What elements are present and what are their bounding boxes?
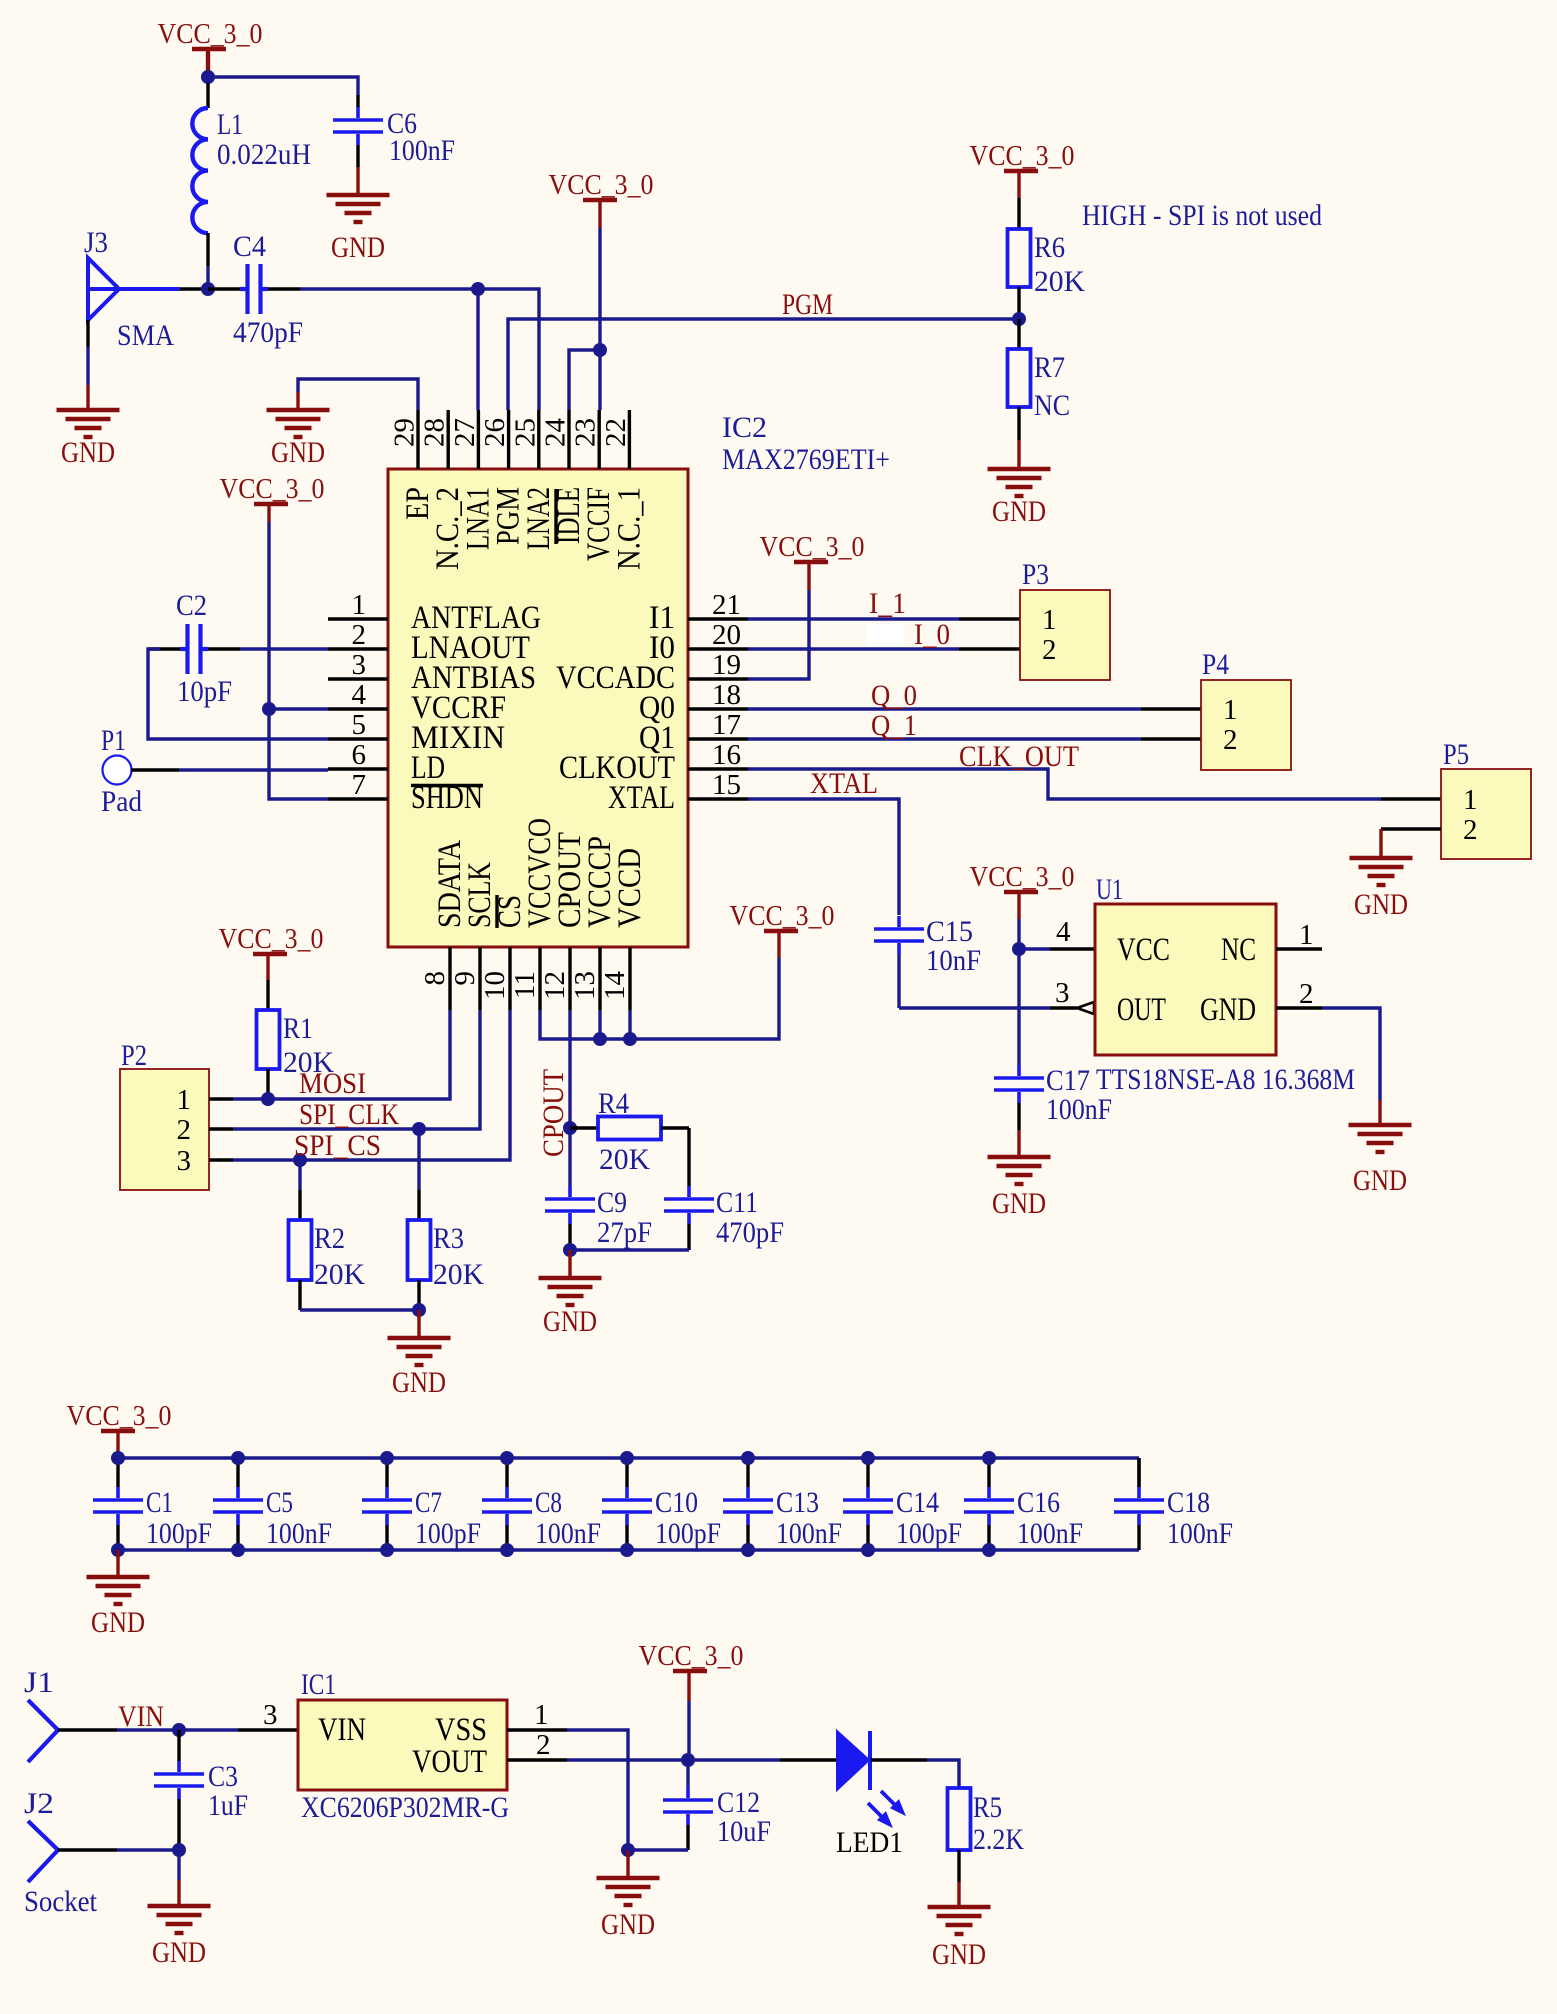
svg-text:2: 2 — [177, 1114, 192, 1146]
svg-text:VCC_3_0: VCC_3_0 — [158, 18, 263, 50]
capacitor C14 — [866, 1458, 869, 1487]
svg-text:R6: R6 — [1034, 231, 1065, 264]
svg-text:26: 26 — [479, 418, 511, 447]
svg-text:3: 3 — [1055, 977, 1070, 1009]
svg-text:1: 1 — [1042, 604, 1057, 636]
svg-text:VCC_3_0: VCC_3_0 — [549, 169, 654, 201]
node junction (VOUT/VCC/C12) — [681, 1753, 695, 1767]
svg-text:100pF: 100pF — [896, 1517, 962, 1550]
svg-text:VIN: VIN — [318, 1712, 366, 1748]
wire GND rail bottom — [118, 1548, 1139, 1551]
svg-text:18: 18 — [712, 679, 741, 711]
svg-text:N.C._1: N.C._1 — [611, 487, 647, 570]
svg-text:J3: J3 — [84, 226, 108, 259]
node junction (SPI_CS/R2) — [293, 1153, 307, 1167]
svg-text:7: 7 — [352, 769, 367, 801]
svg-text:9: 9 — [449, 971, 481, 986]
junction C13 top — [741, 1451, 755, 1465]
svg-text:23: 23 — [570, 418, 602, 447]
junction C1 bottom — [111, 1543, 125, 1557]
svg-text:SPI_CLK: SPI_CLK — [299, 1098, 399, 1131]
svg-text:8: 8 — [419, 971, 451, 986]
wire PGM from pin 26 — [508, 319, 1019, 410]
svg-text:2: 2 — [1223, 724, 1238, 756]
power VCC_3_0 (cap bank) — [101, 1429, 135, 1433]
wire SPI_CLK: P2 pin2 to SCLK — [209, 1127, 233, 1130]
node junction (J2/C3 gnd) — [172, 1843, 186, 1857]
IC1 pin 1 VSS wire — [507, 1728, 567, 1731]
svg-text:2: 2 — [1463, 814, 1478, 846]
wire J1 VIN — [58, 1728, 117, 1731]
svg-text:C4: C4 — [233, 230, 266, 263]
wire IDLE to VCC — [569, 350, 600, 410]
wire C15 to U1 OUT — [897, 954, 900, 1008]
wire I_0 to P3 pin2 — [748, 647, 959, 650]
wire R2/R3 to ground — [300, 1308, 419, 1311]
svg-text:SPI_CS: SPI_CS — [294, 1129, 381, 1162]
svg-text:C18: C18 — [1167, 1486, 1210, 1519]
junction C16 top — [982, 1451, 996, 1465]
svg-text:GND: GND — [932, 1938, 986, 1971]
power VCC_3_0 (VCCADC) — [794, 560, 828, 564]
svg-text:P4: P4 — [1202, 648, 1229, 681]
svg-text:470pF: 470pF — [716, 1216, 784, 1249]
svg-text:CLK_OUT: CLK_OUT — [959, 740, 1079, 773]
wire VCC to C6 — [208, 77, 358, 95]
LED1 arrows — [868, 1791, 895, 1817]
resistor R7 — [1017, 319, 1020, 349]
svg-text:100pF: 100pF — [146, 1517, 212, 1550]
svg-text:20K: 20K — [1034, 265, 1085, 298]
node junction (VCCCP) — [593, 1032, 607, 1046]
capacitor C18 — [1137, 1458, 1140, 1487]
wire VCC to U1 pin 4 — [1019, 947, 1050, 950]
svg-text:GND: GND — [543, 1305, 597, 1338]
wire to pin 27 — [476, 289, 479, 410]
svg-text:1: 1 — [177, 1084, 192, 1116]
capacitor C7 — [385, 1458, 388, 1487]
svg-text:3: 3 — [177, 1145, 192, 1177]
svg-text:19: 19 — [712, 649, 741, 681]
svg-text:GND: GND — [1200, 992, 1256, 1028]
svg-text:LED1: LED1 — [836, 1826, 903, 1859]
svg-text:100nF: 100nF — [1167, 1517, 1233, 1550]
svg-text:GND: GND — [392, 1366, 446, 1399]
IC1 pin 2 VOUT wire — [507, 1758, 567, 1761]
svg-text:10uF: 10uF — [717, 1815, 771, 1848]
wire VCC to pin 23 VCCIF — [598, 228, 601, 410]
svg-text:100nF: 100nF — [389, 134, 455, 167]
output marker U1 pin 3 — [1077, 1002, 1094, 1014]
svg-text:2: 2 — [1299, 978, 1314, 1010]
svg-text:PGM: PGM — [782, 288, 833, 321]
svg-text:GND: GND — [61, 436, 115, 469]
capacitor C5 — [236, 1458, 239, 1487]
svg-text:C1: C1 — [146, 1486, 173, 1519]
svg-text:Q_0: Q_0 — [871, 679, 917, 712]
capacitor C11 — [664, 1197, 714, 1201]
IC2 bottom pins 8-14 — [448, 947, 451, 1010]
svg-text:VCCD: VCCD — [612, 848, 648, 928]
svg-text:C5: C5 — [266, 1486, 293, 1519]
svg-text:21: 21 — [712, 589, 741, 621]
junction C1 top — [111, 1451, 125, 1465]
svg-text:4: 4 — [352, 679, 367, 711]
node junction (SPI_CLK/R3) — [412, 1122, 426, 1136]
wire C12 to gnd junction — [628, 1848, 688, 1851]
svg-text:VOUT: VOUT — [412, 1744, 487, 1780]
node junction (C9 gnd) — [563, 1243, 577, 1257]
capacitor C9 — [545, 1197, 595, 1201]
node junction (IDLE/VCCIF) — [593, 343, 607, 357]
wire MOSI: P2 pin1 to SDATA — [209, 1097, 233, 1100]
svg-text:GND: GND — [992, 1187, 1046, 1220]
svg-text:20K: 20K — [433, 1258, 484, 1291]
svg-text:20: 20 — [712, 619, 741, 651]
wire C18 riser — [1137, 1458, 1140, 1487]
LED LED1 — [688, 1758, 780, 1761]
wire C2 to LNAOUT pin2 — [208, 647, 240, 650]
svg-text:VCC_3_0: VCC_3_0 — [219, 923, 324, 955]
svg-text:C8: C8 — [535, 1486, 562, 1519]
svg-text:CPOUT: CPOUT — [537, 1069, 570, 1157]
svg-text:MOSI: MOSI — [299, 1067, 366, 1100]
node junction (U1 VCC) — [1012, 942, 1026, 956]
svg-text:1uF: 1uF — [208, 1789, 248, 1822]
ground (U1 pin2) — [1349, 1123, 1412, 1127]
node junction (R1/MOSI) — [261, 1092, 275, 1106]
svg-text:VCC_3_0: VCC_3_0 — [970, 140, 1075, 172]
svg-text:I_1: I_1 — [869, 587, 906, 620]
svg-text:22: 22 — [600, 418, 632, 447]
wire R4 to C11 — [687, 1128, 690, 1186]
capacitor C4 — [208, 287, 240, 290]
wire Q_1 to P4 pin2 — [748, 737, 1141, 740]
svg-text:NC: NC — [1034, 389, 1070, 422]
svg-text:Pad: Pad — [101, 785, 142, 818]
node junction (VSS gnd) — [621, 1843, 635, 1857]
capacitor C13 — [746, 1458, 749, 1487]
svg-text:L1: L1 — [217, 108, 243, 141]
svg-text:R2: R2 — [314, 1222, 345, 1255]
resistor R4 — [570, 1126, 598, 1129]
svg-text:HIGH - SPI is not used: HIGH - SPI is not used — [1082, 199, 1322, 232]
junction C7 top — [380, 1451, 394, 1465]
svg-text:GND: GND — [331, 231, 385, 264]
white label box (I_0) — [867, 624, 904, 648]
IC2 left pins 1-7 — [328, 617, 388, 620]
connector P1 pad — [103, 756, 132, 785]
svg-text:24: 24 — [540, 418, 572, 448]
svg-text:R5: R5 — [973, 1791, 1002, 1824]
ground (C6) — [327, 193, 390, 197]
capacitor C1 — [116, 1458, 119, 1487]
node junction (LNA1 branch) — [471, 282, 485, 296]
svg-text:29: 29 — [389, 418, 421, 447]
junction C10 top — [620, 1451, 634, 1465]
svg-text:28: 28 — [419, 418, 451, 447]
connector J3 SMA — [88, 258, 119, 320]
svg-text:17: 17 — [712, 709, 741, 741]
svg-text:VCC_3_0: VCC_3_0 — [970, 861, 1075, 893]
svg-text:Q_1: Q_1 — [871, 709, 917, 742]
power VCC_3_0 (antenna bias) — [192, 47, 226, 51]
svg-text:25: 25 — [509, 418, 541, 447]
capacitor C10 — [625, 1458, 628, 1487]
wire VCC to pin 19 VCCADC — [748, 590, 809, 679]
svg-text:VSS: VSS — [435, 1712, 487, 1748]
svg-text:10pF: 10pF — [177, 675, 232, 708]
svg-text:XTAL: XTAL — [608, 780, 675, 816]
ground (R7) — [988, 467, 1051, 471]
ground (cap bank) — [116, 1550, 119, 1577]
svg-text:16: 16 — [712, 739, 741, 771]
power VCC_3_0 (VCCIF) — [583, 198, 617, 202]
capacitor C8 — [505, 1458, 508, 1487]
svg-text:MAX2769ETI+: MAX2769ETI+ — [722, 443, 890, 476]
ground (C9/C11) — [539, 1276, 602, 1280]
connector P2 — [120, 1069, 209, 1190]
svg-text:I_0: I_0 — [914, 618, 950, 651]
connector P5 — [1441, 769, 1531, 859]
power VCC_3_0 (VCC rail) — [764, 929, 798, 933]
svg-text:P2: P2 — [121, 1039, 147, 1072]
svg-text:R3: R3 — [433, 1222, 464, 1255]
connector J1 — [28, 1700, 58, 1762]
svg-text:VCC_3_0: VCC_3_0 — [67, 1400, 172, 1432]
node junction (R2/R3 gnd) — [412, 1303, 426, 1317]
resistor R1 — [257, 1010, 280, 1069]
svg-text:Socket: Socket — [24, 1885, 98, 1918]
capacitor C16 — [987, 1458, 990, 1487]
wire VCC rail top — [118, 1456, 1139, 1459]
node junction (VIN/C3) — [172, 1723, 186, 1737]
svg-text:14: 14 — [599, 971, 631, 1001]
svg-text:GND: GND — [271, 436, 325, 469]
svg-text:J1: J1 — [24, 1666, 54, 1699]
svg-text:IC1: IC1 — [301, 1668, 336, 1701]
ground (J3) — [57, 408, 120, 412]
wire XTAL from pin 15 — [748, 799, 899, 915]
wire VCCVCO/VCCCP/VCCD to VCC — [540, 958, 779, 1039]
svg-text:C14: C14 — [896, 1486, 939, 1519]
svg-text:C9: C9 — [597, 1186, 627, 1219]
svg-text:GND: GND — [1354, 888, 1408, 921]
capacitor C3 — [177, 1730, 180, 1761]
svg-text:1: 1 — [534, 1699, 549, 1731]
wire J2 to C3 — [58, 1848, 117, 1851]
wire CLK_OUT to P5 pin1 — [748, 769, 1381, 799]
wire VCC to C17 — [1017, 949, 1020, 1066]
svg-text:5: 5 — [352, 709, 367, 741]
wire C4 to LNA1/LNA2 — [300, 289, 539, 410]
svg-text:VCC_3_0: VCC_3_0 — [220, 473, 325, 505]
resistor R6 — [1008, 229, 1031, 287]
svg-text:C10: C10 — [655, 1486, 698, 1519]
svg-text:15: 15 — [712, 769, 741, 801]
svg-text:VCC_3_0: VCC_3_0 — [639, 1640, 744, 1672]
svg-text:100nF: 100nF — [266, 1517, 332, 1550]
power VCC_3_0 (R6) — [1004, 169, 1038, 173]
U1 pin 2 GND wire — [1276, 1006, 1322, 1009]
wire SPI_CS: P2 pin3 to CS — [209, 1158, 233, 1161]
svg-text:1: 1 — [352, 589, 367, 621]
IC2 right pins 21-15 — [688, 617, 748, 620]
svg-text:IC2: IC2 — [722, 411, 767, 444]
svg-text:U1: U1 — [1096, 873, 1123, 906]
svg-text:100pF: 100pF — [415, 1517, 481, 1550]
power VCC_3_0 (R1) — [253, 952, 287, 956]
ground (R5) — [928, 1905, 991, 1909]
IC U2 MAX2769ETI+ body — [388, 469, 688, 947]
wire CPOUT from pin 12 — [568, 1010, 571, 1186]
power VCC_3_0 (VCCRF/SHDN) — [254, 502, 288, 506]
junction C13 bottom — [741, 1543, 755, 1557]
power VCC_3_0 (U1) — [1004, 890, 1038, 894]
svg-text:VIN: VIN — [118, 1700, 164, 1733]
svg-text:2.2K: 2.2K — [973, 1823, 1024, 1856]
IC2 top pins 29-22 — [416, 410, 419, 469]
wire VCC to SHDN pin7 — [269, 522, 328, 799]
svg-text:C16: C16 — [1017, 1486, 1060, 1519]
svg-text:100pF: 100pF — [655, 1517, 721, 1550]
resistor R3 — [417, 1129, 420, 1190]
svg-text:27pF: 27pF — [597, 1216, 652, 1249]
wire VIN to IC1 pin3 — [179, 1728, 238, 1731]
junction C14 top — [861, 1451, 875, 1465]
capacitor C12 — [686, 1760, 689, 1787]
wire EP to ground — [298, 379, 418, 410]
capacitor C15 — [874, 927, 924, 931]
ground (EP) — [267, 408, 330, 412]
junction C8 top — [500, 1451, 514, 1465]
svg-text:6: 6 — [352, 739, 367, 771]
ground (P5) — [1350, 856, 1413, 860]
ground (J2/C3) — [148, 1904, 211, 1908]
junction C10 bottom — [620, 1543, 634, 1557]
svg-text:1: 1 — [1299, 919, 1314, 951]
wire P5 pin2 to ground — [1381, 827, 1441, 830]
svg-text:0.022uH: 0.022uH — [217, 138, 311, 171]
ground (R2/R3) — [388, 1336, 451, 1340]
connector J2 — [28, 1821, 58, 1882]
wire LED1 to R5 — [871, 1758, 927, 1761]
node junction (CPOUT) — [563, 1121, 577, 1135]
svg-text:3: 3 — [352, 649, 367, 681]
svg-text:1: 1 — [1223, 694, 1238, 726]
svg-text:20K: 20K — [314, 1258, 365, 1291]
ground (C17) — [988, 1155, 1051, 1159]
svg-text:XC6206P302MR-G: XC6206P302MR-G — [301, 1791, 509, 1824]
node junction at L1 top — [201, 70, 215, 84]
wire C2 to MIXIN pin5 — [148, 647, 180, 650]
svg-text:20K: 20K — [599, 1143, 650, 1176]
svg-text:100nF: 100nF — [535, 1517, 601, 1550]
svg-text:GND: GND — [91, 1606, 145, 1639]
svg-text:R1: R1 — [283, 1012, 313, 1045]
svg-text:100nF: 100nF — [776, 1517, 842, 1550]
wire Q_0 to P4 pin1 — [748, 707, 1141, 710]
svg-text:13: 13 — [569, 971, 601, 1000]
svg-text:470pF: 470pF — [233, 316, 303, 349]
svg-text:GND: GND — [152, 1936, 206, 1969]
junction C5 top — [231, 1451, 245, 1465]
svg-text:C11: C11 — [716, 1186, 758, 1219]
svg-text:10: 10 — [479, 971, 511, 1000]
svg-text:1: 1 — [1463, 784, 1478, 816]
wire C9/C11 bottoms — [568, 1224, 571, 1250]
U1 pin 1 NC — [1276, 947, 1322, 950]
power VCC_3_0 (regulator out) — [673, 1669, 707, 1673]
svg-text:R4: R4 — [598, 1087, 629, 1120]
wire to pin 4 VCCRF — [269, 707, 328, 710]
junction C14 bottom — [861, 1543, 875, 1557]
capacitor C6 — [333, 118, 383, 122]
svg-text:TTS18NSE-A8 16.368M: TTS18NSE-A8 16.368M — [1096, 1063, 1355, 1096]
junction C16 bottom — [982, 1543, 996, 1557]
svg-text:GND: GND — [1353, 1164, 1407, 1197]
svg-text:C2: C2 — [176, 589, 207, 622]
svg-text:VCC: VCC — [1117, 932, 1170, 968]
node junction (L1 / J3 / C4) — [201, 282, 215, 296]
svg-text:C7: C7 — [415, 1486, 442, 1519]
svg-text:GND: GND — [601, 1908, 655, 1941]
IC U1 TCXO body — [1095, 904, 1276, 1055]
svg-text:GND: GND — [992, 495, 1046, 528]
connector P4 — [1201, 680, 1291, 770]
svg-text:100nF: 100nF — [1046, 1093, 1112, 1126]
wire I_1 to P3 pin1 — [748, 617, 959, 620]
svg-text:11: 11 — [509, 971, 541, 999]
svg-text:4: 4 — [1056, 916, 1071, 948]
resistor R5 — [948, 1788, 971, 1850]
svg-text:100nF: 100nF — [1017, 1517, 1083, 1550]
svg-text:SMA: SMA — [117, 319, 174, 352]
svg-text:27: 27 — [449, 418, 481, 447]
node junction (VCCRF) — [262, 702, 276, 716]
svg-text:OUT: OUT — [1117, 992, 1166, 1028]
wire J3 to node — [180, 287, 208, 290]
svg-text:3: 3 — [263, 1699, 278, 1731]
wire P1 to LD pin6 — [131, 768, 179, 771]
svg-text:2: 2 — [352, 619, 367, 651]
svg-text:10nF: 10nF — [926, 944, 981, 977]
svg-text:12: 12 — [539, 971, 571, 1000]
svg-text:P1: P1 — [101, 724, 126, 757]
svg-text:C13: C13 — [776, 1486, 819, 1519]
svg-text:VCC_3_0: VCC_3_0 — [730, 900, 835, 932]
inductor L1 — [206, 83, 209, 108]
svg-text:J2: J2 — [24, 1787, 54, 1820]
connector P3 — [1020, 590, 1110, 680]
junction C5 bottom — [231, 1543, 245, 1557]
svg-text:XTAL: XTAL — [810, 767, 878, 800]
svg-text:2: 2 — [1042, 634, 1057, 666]
svg-text:P5: P5 — [1443, 738, 1469, 771]
svg-text:R7: R7 — [1034, 351, 1065, 384]
capacitor C17 — [994, 1076, 1044, 1080]
resistor R2 — [298, 1160, 301, 1190]
svg-text:NC: NC — [1221, 932, 1256, 968]
svg-text:P3: P3 — [1022, 558, 1049, 591]
junction C7 bottom — [380, 1543, 394, 1557]
ground (IC1 VSS) — [597, 1876, 660, 1880]
node junction (PGM/R6/R7) — [1012, 312, 1026, 326]
junction C8 bottom — [500, 1543, 514, 1557]
node junction (VCCD) — [623, 1032, 637, 1046]
svg-text:VCC_3_0: VCC_3_0 — [760, 531, 865, 563]
capacitor C2 — [185, 624, 189, 674]
